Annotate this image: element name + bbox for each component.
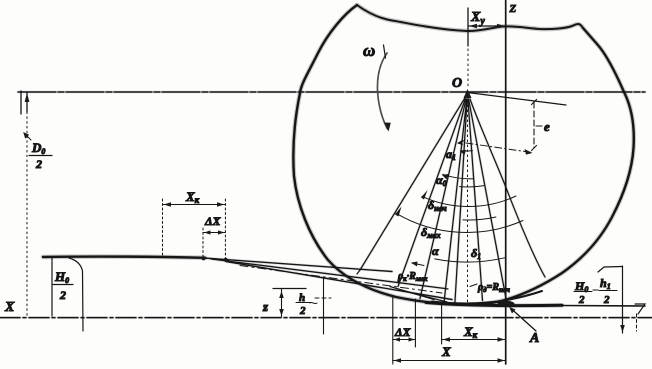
convergence segment c2: [402, 291, 447, 303]
O center blob: [464, 89, 472, 98]
tangency blob at A: [498, 301, 515, 307]
omega tick: [384, 45, 386, 58]
ray R9 curved: [470, 99, 545, 277]
ray R2: [398, 99, 465, 287]
rho-k = R-max label: [412, 263, 424, 266]
right dim vertical line: [622, 266, 624, 333]
svg-text:z: z: [262, 299, 269, 314]
svg-text:A: A: [529, 331, 539, 346]
upper Xk dimension: right extension: [224, 199, 226, 259]
slant feed line S1 (old surface continuation): [204, 258, 392, 272]
a1 leader arrow: [458, 141, 465, 144]
svg-text:e: e: [544, 119, 550, 134]
upper Xk dimension line: [163, 204, 226, 206]
junction dot 1: [201, 256, 205, 260]
bottom Xk dim line: [442, 339, 506, 341]
e dimension line (vertical dashed with ticks): [533, 102, 535, 148]
scan fuzz overlay: [43, 5, 634, 306]
junction dot 2: [224, 258, 228, 262]
cutter circle outline (hand-drawn): [293, 5, 633, 305]
z/h2 vertical arrow line: [281, 289, 283, 317]
fan vertical dotted line below O: [467, 100, 469, 302]
D0/2 label leader: [24, 133, 31, 140]
angle arc alpha0 (r=85): [443, 174, 474, 179]
e construction: lower dashed line with arrow: [466, 143, 532, 153]
angle arc delta-nach (r=112): [422, 196, 516, 207]
svg-text:2: 2: [35, 157, 42, 171]
Xy extension vertical through O (upper part): [467, 8, 469, 46]
Z axis vertical line: [505, 0, 507, 364]
bottom X dim line: [393, 360, 506, 362]
H0/2 extension line left: [51, 257, 53, 316]
ray R3: [420, 99, 466, 299]
z/h2 small dimension: top bar: [273, 288, 306, 290]
svg-text:ω: ω: [363, 41, 375, 60]
svg-text:D0: D0: [31, 140, 45, 156]
ray R7: [468, 99, 483, 301]
e construction: slant line from O to right: [468, 93, 567, 106]
svg-text:Xк: Xк: [185, 189, 200, 205]
upper dX extension: [202, 228, 204, 258]
overbracket to dimension line: [598, 267, 622, 273]
bottom dim: ext line x=441.6: [441, 303, 443, 344]
left surface line (workpiece top): [43, 257, 205, 258]
svg-text:2: 2: [299, 305, 306, 317]
svg-text:X: X: [4, 300, 15, 315]
bottom surface overlay (heavy scan stroke): [432, 291, 542, 303]
svg-text:O: O: [452, 76, 462, 91]
point A leader arrow: [511, 309, 536, 332]
bottom surface right part: [560, 305, 645, 308]
upper dX dimension line: [203, 232, 225, 234]
ray R4: [444, 99, 467, 303]
right corner tick: [635, 304, 645, 314]
angle arc r94 step: [460, 186, 484, 187]
bottom dim: dX line: [393, 339, 416, 341]
svg-text:Xк: Xк: [463, 324, 478, 340]
ext line at 323: [323, 278, 325, 334]
bottom machined surface (thick): [426, 303, 562, 306]
rho-d = R-nach label: [470, 284, 477, 287]
bottom dim: ext line x=392.8: [392, 296, 394, 364]
svg-text:h1: h1: [600, 276, 611, 291]
angle arc mid (r=126): [463, 217, 496, 220]
svg-text:Xу: Xу: [470, 10, 485, 27]
svg-text:ΔX: ΔX: [394, 325, 412, 339]
ray R5: [455, 99, 467, 305]
svg-text:X: X: [441, 344, 451, 359]
svg-text:Z: Z: [509, 3, 517, 15]
D0/2 dimension line (left, dotted vertical): [26, 112, 28, 316]
omega arrowhead: [384, 123, 391, 132]
svg-text:2: 2: [578, 294, 585, 306]
angle arc delta-kon (r=139): [396, 213, 523, 232]
convergence segment c1: [390, 287, 434, 300]
ray R8: [469, 99, 506, 299]
slant feed line S2b (dashed): [240, 266, 442, 294]
slant feed line S3: [226, 262, 452, 300]
svg-text:H0: H0: [54, 269, 69, 285]
omega rotation arrow arc: [377, 53, 387, 129]
angle arc bottom (r=168): [435, 258, 506, 262]
svg-text:ΔX: ΔX: [204, 214, 222, 228]
ray R1: [357, 98, 465, 274]
H0/2 extension line right (curved top): [69, 258, 83, 331]
angle arc a1 (r=57): [461, 150, 473, 152]
Xy dimension line with arrows: [468, 25, 506, 27]
svg-text:2: 2: [59, 288, 66, 302]
wavy break line at top of cutter: [357, 5, 583, 31]
centerline through O (horizontal dash-dot): [18, 91, 645, 93]
X axis (horizontal dash-dot datum): [0, 317, 652, 319]
upper Xk dimension: left extension: [162, 199, 164, 257]
svg-text:2: 2: [603, 294, 610, 306]
bottom dim: ext line x=415.4: [414, 299, 416, 347]
e label: [536, 125, 542, 127]
slant feed line S2: [211, 259, 448, 289]
